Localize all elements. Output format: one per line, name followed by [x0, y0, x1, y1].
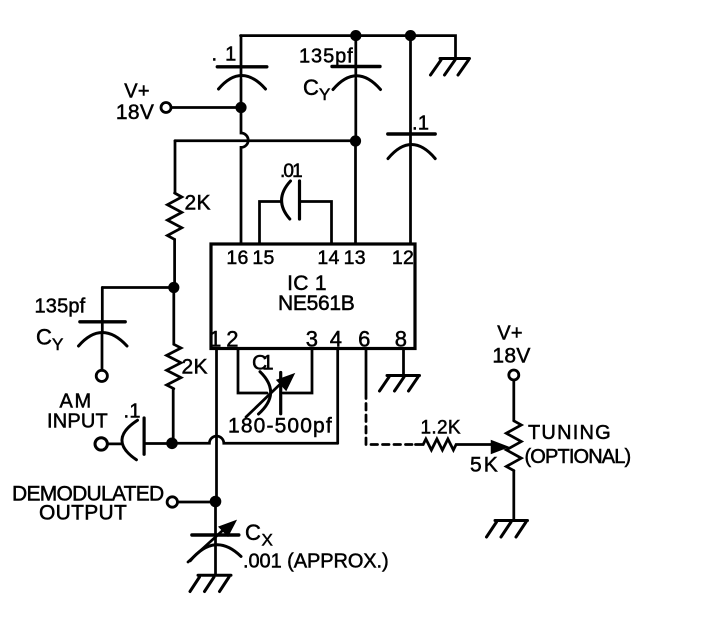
ground pin 8	[380, 376, 420, 392]
ground pot	[487, 521, 528, 538]
svg-text:13: 13	[344, 247, 366, 269]
V+ 18V terminal (right)	[492, 323, 530, 381]
V+ 18V terminal (left)	[116, 81, 171, 125]
svg-text:18V: 18V	[492, 345, 530, 368]
junction dot top right cap	[405, 30, 416, 41]
svg-text:8: 8	[395, 326, 408, 351]
wire 2K to junction	[173, 239, 176, 287]
svg-text:2K: 2K	[182, 356, 208, 379]
capacitor .1 (AM input)	[108, 401, 173, 460]
capacitor CY 135pf (left)	[35, 288, 128, 371]
wire pin 3 down to C1	[283, 349, 312, 394]
junction dot 2K node	[168, 282, 179, 293]
svg-text:AM: AM	[60, 391, 92, 413]
junction dot AM node	[166, 438, 178, 450]
wire top bus V+ rail	[241, 36, 456, 58]
junction dot V+ node	[235, 102, 246, 113]
svg-text:16: 16	[226, 247, 248, 269]
wire output terminal to node	[178, 501, 216, 504]
svg-text:4: 4	[330, 326, 343, 351]
demodulated output terminal	[12, 483, 178, 525]
capacitor CX .001 (variable)	[188, 502, 389, 575]
wire 2K lower to AM node	[172, 389, 175, 444]
svg-text:2: 2	[226, 326, 239, 351]
wire pin 2 down to C1	[238, 349, 267, 394]
terminal CY external	[96, 370, 107, 381]
wire junction to left CY cap	[102, 286, 174, 289]
junction dot pin 13 node	[350, 135, 361, 146]
resistor 1.2K	[416, 418, 493, 451]
resistor 2K (lower)	[167, 344, 208, 388]
svg-text:NE561B: NE561B	[278, 292, 355, 315]
ground CX	[190, 575, 231, 591]
wire left branch down to 2K	[174, 141, 177, 193]
wire pin 8 down	[402, 349, 405, 375]
wire pin 6 dashed to 1.2K	[365, 349, 368, 391]
svg-text:14: 14	[317, 247, 339, 269]
potentiometer 5K (tuning)	[470, 380, 632, 520]
wire horizontal node row (to pin 13 node)	[175, 139, 356, 142]
svg-text:1.2K: 1.2K	[421, 418, 461, 439]
wire pin 4 down to AM wire	[336, 349, 339, 444]
svg-text:.1: .1	[212, 44, 237, 66]
svg-text:135pf: 135pf	[299, 46, 353, 68]
capacitor .01 (pins 15-14)	[260, 161, 332, 245]
ground top right	[431, 59, 470, 76]
svg-text:1: 1	[209, 326, 222, 351]
svg-text:5K: 5K	[470, 454, 498, 477]
svg-text:.001 (APPROX.): .001 (APPROX.)	[243, 551, 389, 573]
svg-text:.1: .1	[124, 401, 141, 423]
svg-text:C: C	[245, 520, 261, 545]
svg-text:INPUT: INPUT	[47, 411, 108, 433]
svg-text:OUTPUT: OUTPUT	[39, 502, 127, 525]
resistor 2K (upper)	[167, 192, 210, 240]
svg-text:C: C	[36, 325, 52, 350]
wire AM node to pin 4, hop over pin 1 wire	[172, 436, 338, 443]
svg-text:C1: C1	[252, 352, 274, 375]
capacitor CY 135pf (top)	[299, 36, 381, 141]
svg-text:135pf: 135pf	[35, 296, 86, 318]
junction dot top CY	[350, 30, 361, 41]
svg-text:18V: 18V	[116, 101, 154, 124]
wire junction down to lower 2K	[172, 288, 175, 345]
svg-text:15: 15	[252, 247, 274, 269]
AM input terminal	[47, 391, 108, 451]
svg-text:6: 6	[358, 326, 371, 351]
capacitor .1 (top left)	[212, 36, 267, 108]
wire V+ terminal to node	[172, 106, 242, 109]
svg-text:.01: .01	[280, 161, 303, 182]
capacitor .1 (right)	[388, 36, 435, 245]
svg-text:Y: Y	[52, 335, 64, 354]
svg-text:X: X	[262, 531, 274, 550]
junction dot output node	[210, 496, 222, 508]
wire V+ node down with hop over horizontal wire, to pin 16	[241, 108, 248, 246]
wire pin 13	[354, 141, 357, 245]
svg-text:V+: V+	[497, 323, 523, 345]
svg-text:180-500pf: 180-500pf	[228, 415, 332, 438]
svg-text:(OPTIONAL): (OPTIONAL)	[525, 446, 632, 468]
capacitor C1 180-500pf (variable)	[228, 352, 332, 438]
IC U1 NE561B	[211, 244, 415, 349]
svg-text:.1: .1	[412, 113, 429, 135]
svg-text:TUNING: TUNING	[528, 422, 611, 444]
svg-text:Y: Y	[319, 85, 331, 104]
svg-text:12: 12	[392, 247, 414, 269]
svg-text:C: C	[303, 75, 319, 100]
wiper arrow	[492, 441, 508, 453]
svg-text:2K: 2K	[185, 192, 211, 215]
wire pin 1 down through to output node	[215, 349, 218, 502]
svg-text:V+: V+	[124, 81, 150, 103]
